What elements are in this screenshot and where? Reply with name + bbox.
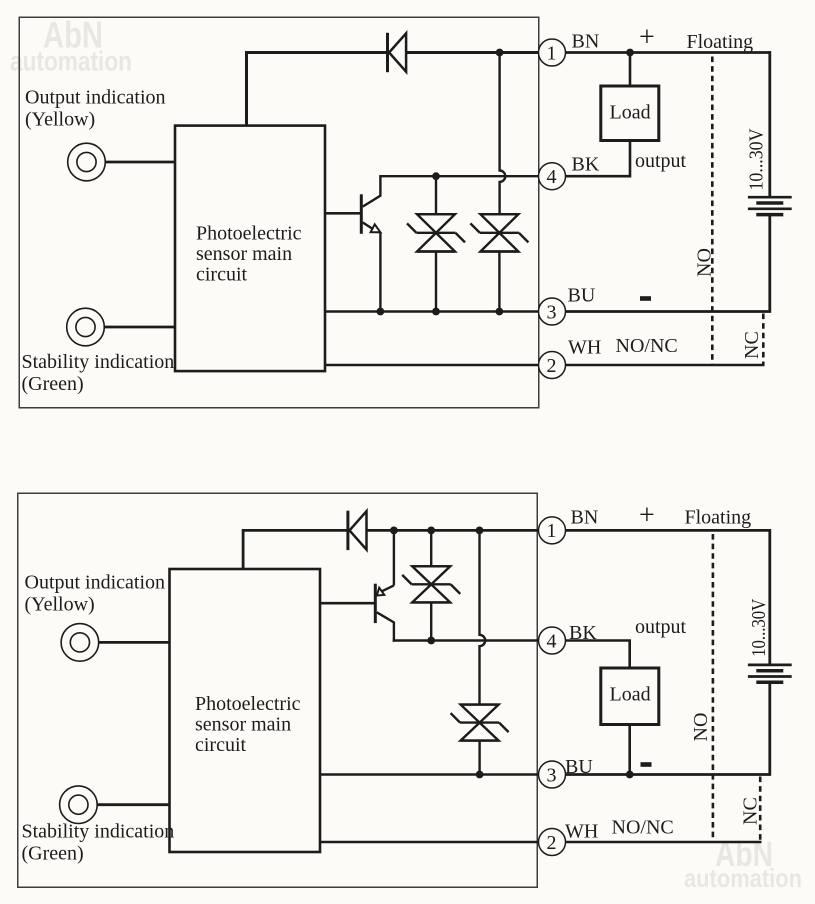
svg-text:2: 2 <box>547 355 557 377</box>
svg-text:BK: BK <box>572 154 600 176</box>
node: BN to TVS2 junction (top) <box>496 49 504 57</box>
wire green LED to main circuit (bottom) <box>97 803 169 806</box>
wire WH terminal 2 extension NO/NC (top) <box>566 364 765 367</box>
LED yellow output indicator (bottom) <box>61 624 99 662</box>
svg-text:4: 4 <box>547 630 557 652</box>
svg-text:+: + <box>639 500 655 531</box>
wire BN terminal 1 to supply rail (bottom) <box>566 529 772 532</box>
node: BK to TVS1 junction (top) <box>432 172 440 180</box>
svg-text:BU: BU <box>568 285 596 307</box>
dashed separator line NO (top) <box>711 57 714 366</box>
wire BN node down to TVS Z2, hops over BK line (bottom) <box>480 530 486 704</box>
wire supply rail down to battery (top) <box>768 51 771 196</box>
load box (top) <box>601 86 659 141</box>
wire BU line: main circuit to terminal 3 (top) <box>325 310 539 313</box>
node: TVS Z1 on BK line (bottom) <box>427 637 435 645</box>
wire TVS Z2 to BU line (bottom) <box>478 741 480 775</box>
terminal 4 BK (bottom) <box>539 627 566 654</box>
transistor Q1 NPN output (top) <box>325 176 380 311</box>
svg-text:Stability indication: Stability indication <box>22 351 175 373</box>
svg-text:Load: Load <box>610 102 651 124</box>
dashed separator line NO (bottom) <box>712 534 715 842</box>
node: Q2 emitter on BN line (bottom) <box>390 527 398 535</box>
diode D2 reverse-protection (bottom) <box>348 511 367 550</box>
svg-text:NC: NC <box>741 331 763 359</box>
terminal 3 BU (bottom) <box>539 761 566 788</box>
photoelectric sensor main circuit box (bottom) <box>170 569 321 852</box>
svg-text:Photoelectric: Photoelectric <box>195 693 301 715</box>
label Photoelectric sensor main circuit (bottom) <box>195 693 301 756</box>
wire BK line: Q1 collector to terminal 4 (top) <box>379 175 538 177</box>
svg-text:sensor main: sensor main <box>196 243 292 265</box>
wire battery to BU line minus (bottom) <box>566 684 770 775</box>
svg-text:10...30V: 10...30V <box>746 128 768 190</box>
wire BN terminal 1 to supply rail (top) <box>566 51 772 54</box>
TVS Z2 bidirectional suppressor (bottom lower) <box>451 705 509 741</box>
svg-text:NC: NC <box>740 797 762 825</box>
svg-text:(Yellow): (Yellow) <box>25 109 95 131</box>
svg-text:Floating: Floating <box>687 31 754 53</box>
wire BN node down to load (top) <box>629 53 632 87</box>
wire load to terminal 4 output (top) <box>566 141 631 177</box>
wire BK terminal 4 to load (bottom) <box>566 641 630 669</box>
wire WH terminal 2 extension NO/NC (bottom) <box>566 841 762 844</box>
wire load to BU line (bottom) <box>628 725 631 775</box>
svg-text:NO/NC: NO/NC <box>612 817 674 839</box>
svg-text:Floating: Floating <box>685 507 752 529</box>
photoelectric sensor main circuit box (top) <box>175 126 325 372</box>
svg-text:2: 2 <box>547 832 557 854</box>
svg-text:(Yellow): (Yellow) <box>25 594 95 616</box>
load box (bottom) <box>601 668 659 725</box>
svg-text:1: 1 <box>547 520 557 542</box>
wire labels right side (bottom) <box>565 507 751 843</box>
terminal 2 WH (bottom) <box>539 829 566 856</box>
svg-text:circuit: circuit <box>196 264 248 286</box>
wire TVS Z1 to BK line (bottom) <box>430 602 432 640</box>
wire green LED to main circuit (top) <box>104 326 175 329</box>
dashed NC line (bottom) <box>759 777 762 843</box>
wire TVS Z1 to BU line (top) <box>435 252 437 312</box>
terminal 1 BN (bottom) <box>539 517 566 544</box>
svg-text:WH: WH <box>568 337 601 359</box>
terminal 3 BU (top) <box>539 298 566 325</box>
svg-text:output: output <box>635 616 687 638</box>
svg-text:Output indication: Output indication <box>25 87 166 109</box>
battery 10...30V (bottom) <box>748 665 792 682</box>
svg-text:NO: NO <box>690 713 712 742</box>
wire WH line: main circuit to terminal 2 (top) <box>325 364 539 367</box>
node: TVS Z2 on BU line (top) <box>496 308 504 316</box>
wire main circuit to BN line (bottom) <box>243 530 347 569</box>
svg-text:3: 3 <box>547 764 557 786</box>
svg-text:sensor main: sensor main <box>195 714 291 736</box>
svg-text:1: 1 <box>547 42 557 64</box>
svg-text:output: output <box>635 150 687 172</box>
svg-text:Output indication: Output indication <box>25 572 166 594</box>
wire TVS Z2 to BU line (top) <box>498 252 500 312</box>
terminal 2 WH (top) <box>539 352 566 379</box>
svg-text:3: 3 <box>547 301 557 323</box>
bottom diagram: outer enclosure box <box>18 493 538 887</box>
wire BU line: main circuit to terminal 3 (bottom) <box>320 773 539 776</box>
LED green stability indicator (top) <box>67 308 105 346</box>
LED yellow output indicator (top) <box>68 143 106 181</box>
node: TVS Z1 on BU line (top) <box>432 308 440 316</box>
svg-text:BK: BK <box>569 622 597 644</box>
wire yellow LED to main circuit (top) <box>105 161 175 164</box>
svg-text:NO: NO <box>694 248 716 277</box>
top diagram: outer enclosure box <box>19 17 539 408</box>
svg-text:NO/NC: NO/NC <box>616 335 678 357</box>
wire diode to terminal 1 (top) <box>406 51 538 54</box>
svg-text:10...30V: 10...30V <box>748 598 770 656</box>
svg-text:WH: WH <box>565 821 598 843</box>
node: TVS Z2 on BU line (bottom) <box>476 771 484 779</box>
svg-text:4: 4 <box>547 166 557 188</box>
node: BN to TVS1 junction (bottom) <box>427 527 435 535</box>
svg-text:circuit: circuit <box>195 734 247 756</box>
svg-text:BN: BN <box>571 507 599 529</box>
terminal 4 BK (top) <box>539 163 566 190</box>
diode D1 reverse-protection (top) <box>388 33 407 72</box>
node: BN to TVS2 junction (bottom) <box>476 527 484 535</box>
node: Q1 emitter on BU line (top) <box>377 308 385 316</box>
svg-text:(Green): (Green) <box>22 843 84 865</box>
svg-text:BU: BU <box>565 756 593 778</box>
wire BN node down to TVS Z1 (bottom) <box>430 530 432 566</box>
terminal 1 BN (top) <box>539 39 566 66</box>
node: load on BU line (bottom) <box>626 771 634 779</box>
wire diode to terminal 1 (bottom) <box>367 529 539 532</box>
wire WH line: main circuit to terminal 2 (bottom) <box>320 841 539 844</box>
minus sign (top) <box>640 296 651 301</box>
wire BN node down to TVS Z2, hops over BK line (top) <box>500 53 506 215</box>
minus sign (bottom) <box>641 762 652 767</box>
svg-text:(Green): (Green) <box>22 373 84 395</box>
svg-text:Load: Load <box>610 684 651 706</box>
svg-text:automation: automation <box>10 46 132 77</box>
wire supply rail down to battery (bottom) <box>768 529 771 664</box>
svg-text:Stability indication: Stability indication <box>22 821 175 843</box>
dashed NC line (top) <box>762 314 765 366</box>
svg-text:+: + <box>639 22 655 53</box>
node: load branch on BN line (top) <box>626 49 634 57</box>
TVS Z1 bidirectional suppressor (bottom upper) <box>402 566 460 602</box>
wire yellow LED to main circuit (bottom) <box>99 641 170 644</box>
wire labels right side (top) <box>568 31 754 359</box>
TVS Z2 bidirectional suppressor (top right) <box>470 214 528 251</box>
svg-text:Photoelectric: Photoelectric <box>196 223 302 245</box>
wire BK node down to TVS Z1 (top) <box>435 176 437 214</box>
TVS Z1 bidirectional suppressor (top left) <box>407 214 465 251</box>
wire battery to BU line minus (top) <box>566 216 770 312</box>
battery 10...30V (top) <box>748 197 792 214</box>
svg-text:BN: BN <box>572 31 600 53</box>
label Photoelectric sensor main circuit (top) <box>196 223 302 286</box>
transistor Q2 PNP output (bottom) <box>320 530 394 641</box>
wire BK line: Q2 collector to terminal 4 (bottom) <box>393 639 539 641</box>
LED green stability indicator (bottom) <box>60 786 98 824</box>
svg-text:automation: automation <box>684 863 802 893</box>
wire main circuit to BN line (top) <box>247 53 387 126</box>
